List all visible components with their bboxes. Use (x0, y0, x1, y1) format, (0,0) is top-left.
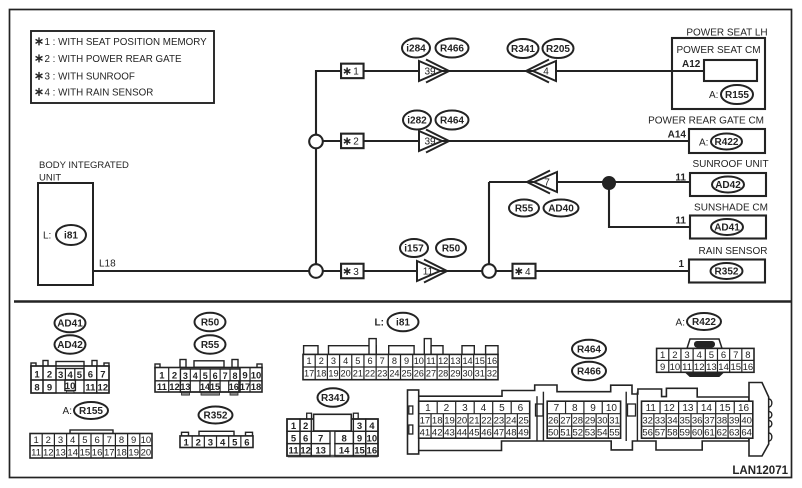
svg-text:6: 6 (367, 356, 372, 366)
svg-text:POWER SEAT LH: POWER SEAT LH (686, 28, 767, 39)
svg-text:57: 57 (655, 428, 666, 439)
svg-text:A:: A: (709, 90, 718, 101)
svg-text:50: 50 (548, 428, 559, 439)
svg-text:AD40: AD40 (548, 204, 574, 215)
svg-text:16: 16 (229, 382, 239, 392)
svg-text:22: 22 (481, 415, 492, 426)
svg-text:8: 8 (34, 383, 39, 394)
svg-text:4: 4 (343, 356, 348, 366)
svg-text:41: 41 (420, 428, 431, 439)
svg-text:9: 9 (660, 362, 665, 373)
svg-text:10: 10 (414, 356, 424, 366)
svg-text:2: 2 (46, 435, 51, 446)
svg-text:8: 8 (745, 350, 750, 361)
svg-text:9: 9 (242, 371, 247, 382)
svg-text:49: 49 (518, 428, 529, 439)
svg-text:14: 14 (462, 356, 472, 366)
svg-text:30: 30 (597, 415, 608, 426)
svg-text:A:: A: (63, 406, 72, 417)
svg-text:29: 29 (585, 415, 596, 426)
svg-text:44: 44 (457, 428, 468, 439)
svg-text:AD41: AD41 (714, 223, 740, 234)
svg-text:AD42: AD42 (57, 340, 83, 351)
svg-text:9: 9 (47, 383, 52, 394)
svg-text:3: 3 (58, 435, 63, 446)
svg-text:61: 61 (704, 428, 715, 439)
svg-text:12: 12 (98, 383, 109, 394)
svg-text:11: 11 (675, 216, 686, 227)
svg-text:AD41: AD41 (57, 319, 83, 330)
svg-text:18: 18 (116, 447, 127, 458)
svg-text:2: 2 (444, 403, 450, 414)
svg-text:4: 4 (525, 267, 531, 278)
svg-text:30: 30 (462, 369, 472, 379)
svg-text:4: 4 (369, 421, 375, 432)
svg-text:1: 1 (183, 437, 189, 448)
svg-text:5: 5 (709, 350, 714, 361)
svg-text:64: 64 (741, 428, 752, 439)
svg-text:38: 38 (717, 415, 728, 426)
svg-text:43: 43 (444, 428, 455, 439)
svg-text:16: 16 (92, 447, 103, 458)
svg-text:47: 47 (494, 428, 505, 439)
svg-text:19: 19 (328, 369, 338, 379)
svg-text:9: 9 (590, 403, 596, 414)
svg-text:POWER SEAT CM: POWER SEAT CM (676, 45, 760, 56)
svg-text:13: 13 (315, 446, 326, 457)
svg-text:24: 24 (506, 415, 517, 426)
svg-text:R205: R205 (546, 44, 570, 55)
svg-text:37: 37 (704, 415, 715, 426)
svg-text:15: 15 (719, 403, 731, 414)
svg-text:i81: i81 (396, 318, 410, 329)
svg-text:12: 12 (43, 447, 54, 458)
svg-text:1: 1 (33, 435, 38, 446)
svg-text:13: 13 (450, 356, 460, 366)
svg-text:6: 6 (88, 370, 93, 381)
svg-text:7: 7 (733, 350, 738, 361)
svg-text:6: 6 (721, 350, 726, 361)
svg-text:11: 11 (31, 447, 41, 458)
svg-text:20: 20 (457, 415, 468, 426)
svg-text:51: 51 (560, 428, 571, 439)
svg-text:56: 56 (642, 428, 653, 439)
svg-text:2: 2 (196, 437, 201, 448)
svg-text:3: 3 (462, 403, 468, 414)
svg-text:52: 52 (572, 428, 583, 439)
svg-text:53: 53 (585, 428, 596, 439)
svg-text:5: 5 (499, 403, 505, 414)
svg-text:10: 10 (670, 362, 681, 373)
svg-text:45: 45 (469, 428, 480, 439)
svg-text:R50: R50 (442, 244, 461, 255)
svg-text:6: 6 (518, 403, 524, 414)
svg-text:8: 8 (572, 403, 578, 414)
svg-text:11: 11 (85, 383, 96, 394)
svg-text:R352: R352 (715, 267, 739, 278)
svg-text:7: 7 (318, 433, 323, 444)
svg-text:R155: R155 (725, 90, 749, 101)
svg-text:i81: i81 (64, 231, 78, 242)
svg-text:11: 11 (646, 403, 657, 414)
svg-text:11: 11 (675, 173, 686, 184)
svg-text:36: 36 (692, 415, 703, 426)
svg-text:8: 8 (233, 371, 238, 381)
svg-text:R466: R466 (440, 44, 464, 55)
svg-text:63: 63 (729, 428, 740, 439)
svg-text:7: 7 (100, 370, 105, 381)
svg-text:24: 24 (389, 369, 399, 379)
svg-text:11: 11 (423, 267, 434, 278)
svg-text:A12: A12 (682, 59, 701, 70)
svg-text:31: 31 (609, 415, 620, 426)
svg-text:18: 18 (316, 369, 326, 379)
svg-text:6: 6 (213, 371, 218, 381)
svg-text:2: 2 (319, 356, 324, 366)
svg-text:R464: R464 (577, 345, 601, 356)
svg-text:2: 2 (172, 371, 177, 382)
svg-text:R55: R55 (515, 204, 534, 215)
svg-text:1: 1 (159, 371, 165, 382)
svg-text:11: 11 (682, 362, 692, 373)
svg-text:20: 20 (141, 447, 152, 458)
svg-text:13: 13 (682, 403, 694, 414)
svg-text:5: 5 (82, 435, 87, 446)
svg-text:58: 58 (667, 428, 678, 439)
svg-text:25: 25 (518, 415, 529, 426)
svg-text:17: 17 (104, 447, 115, 458)
svg-text:46: 46 (481, 428, 492, 439)
svg-text:1: 1 (660, 350, 665, 361)
svg-text:15: 15 (730, 362, 741, 373)
svg-text:7: 7 (107, 435, 112, 446)
svg-text:14: 14 (718, 362, 729, 373)
svg-text:5: 5 (77, 370, 83, 381)
svg-text:39: 39 (424, 67, 436, 78)
svg-text:8: 8 (342, 433, 347, 444)
svg-text:L18: L18 (99, 259, 116, 270)
svg-text:21: 21 (469, 415, 480, 426)
svg-text:8: 8 (392, 356, 397, 366)
svg-text:7: 7 (554, 403, 560, 414)
svg-text:R464: R464 (440, 116, 464, 127)
svg-text:19: 19 (444, 415, 455, 426)
svg-text:1: 1 (307, 356, 312, 366)
svg-text:2: 2 (303, 421, 308, 432)
svg-text:10: 10 (606, 403, 618, 414)
svg-text:60: 60 (692, 428, 703, 439)
svg-text:7: 7 (544, 178, 550, 189)
svg-text:29: 29 (450, 369, 460, 379)
svg-text:13: 13 (706, 362, 717, 373)
svg-text:35: 35 (679, 415, 690, 426)
svg-text:13: 13 (55, 447, 66, 458)
svg-text:14: 14 (701, 403, 713, 414)
svg-text:32: 32 (642, 415, 653, 426)
svg-text:27: 27 (426, 369, 436, 379)
svg-text:48: 48 (506, 428, 517, 439)
svg-text:9: 9 (131, 435, 136, 446)
svg-text:L:: L: (43, 231, 51, 242)
svg-text:L:: L: (375, 318, 384, 329)
svg-text:6: 6 (244, 437, 249, 448)
svg-text:42: 42 (432, 428, 443, 439)
svg-text:3: 3 (58, 370, 63, 381)
svg-text:20: 20 (341, 369, 351, 379)
svg-text:5: 5 (291, 433, 297, 444)
svg-text:31: 31 (475, 369, 485, 379)
svg-text:9: 9 (357, 433, 362, 444)
svg-text:R55: R55 (201, 340, 220, 351)
svg-text:A:: A: (699, 137, 708, 148)
svg-text:4: 4 (193, 371, 198, 381)
svg-text:26: 26 (414, 369, 424, 379)
svg-text:4 : WITH RAIN SENSOR: 4 : WITH RAIN SENSOR (45, 88, 154, 99)
svg-text:1: 1 (34, 370, 40, 381)
svg-text:POWER REAR GATE CM: POWER REAR GATE CM (648, 116, 764, 127)
svg-text:15: 15 (354, 446, 365, 457)
svg-text:23: 23 (377, 369, 387, 379)
svg-text:27: 27 (560, 415, 571, 426)
svg-text:12: 12 (169, 382, 180, 393)
svg-text:R352: R352 (204, 411, 228, 422)
svg-text:i282: i282 (407, 116, 427, 127)
svg-text:7: 7 (223, 371, 228, 381)
svg-text:1: 1 (425, 403, 431, 414)
svg-text:1 : WITH SEAT POSITION MEMORY: 1 : WITH SEAT POSITION MEMORY (45, 37, 208, 48)
svg-text:6: 6 (303, 433, 308, 444)
svg-text:5: 5 (232, 437, 238, 448)
svg-text:5: 5 (203, 371, 208, 381)
svg-text:62: 62 (717, 428, 728, 439)
svg-text:3: 3 (684, 350, 689, 361)
svg-text:25: 25 (402, 369, 412, 379)
svg-text:6: 6 (94, 435, 99, 446)
svg-text:3: 3 (331, 356, 336, 366)
svg-text:5: 5 (355, 356, 360, 366)
svg-text:17: 17 (420, 415, 431, 426)
svg-text:23: 23 (494, 415, 505, 426)
svg-text:21: 21 (353, 369, 363, 379)
svg-text:3: 3 (353, 267, 359, 278)
svg-text:15: 15 (210, 382, 220, 392)
svg-text:16: 16 (738, 403, 750, 414)
svg-text:4: 4 (481, 403, 487, 414)
svg-text:26: 26 (548, 415, 559, 426)
svg-text:12: 12 (300, 446, 311, 457)
svg-text:4: 4 (70, 435, 75, 446)
svg-text:14: 14 (200, 382, 210, 392)
svg-text:10: 10 (367, 433, 378, 444)
svg-text:AD42: AD42 (715, 180, 741, 191)
svg-text:LAN12071: LAN12071 (732, 465, 788, 477)
svg-text:2: 2 (47, 370, 52, 381)
svg-text:16: 16 (487, 356, 497, 366)
svg-text:28: 28 (438, 369, 448, 379)
svg-text:13: 13 (180, 382, 190, 392)
svg-text:39: 39 (424, 137, 436, 148)
svg-text:1: 1 (678, 259, 684, 270)
svg-text:R341: R341 (321, 393, 345, 404)
svg-text:1: 1 (291, 421, 297, 432)
svg-text:2: 2 (672, 350, 677, 361)
svg-text:11: 11 (426, 356, 436, 366)
svg-text:54: 54 (597, 428, 608, 439)
svg-text:18: 18 (432, 415, 443, 426)
svg-text:R50: R50 (201, 318, 220, 329)
svg-text:12: 12 (438, 356, 448, 366)
svg-text:18: 18 (251, 382, 262, 393)
svg-text:7: 7 (380, 356, 385, 366)
svg-text:19: 19 (128, 447, 139, 458)
svg-text:UNIT: UNIT (39, 172, 61, 183)
svg-text:R466: R466 (577, 367, 601, 378)
svg-text:2: 2 (353, 137, 359, 148)
svg-text:R341: R341 (511, 44, 535, 55)
svg-text:14: 14 (67, 447, 78, 458)
svg-text:40: 40 (741, 415, 752, 426)
svg-text:3: 3 (208, 437, 213, 448)
svg-text:39: 39 (729, 415, 740, 426)
svg-text:A:: A: (676, 318, 685, 329)
svg-text:34: 34 (667, 415, 678, 426)
svg-text:12: 12 (694, 362, 705, 373)
svg-text:4: 4 (697, 350, 702, 361)
svg-text:59: 59 (679, 428, 690, 439)
svg-text:10: 10 (251, 371, 262, 382)
svg-text:15: 15 (475, 356, 485, 366)
svg-text:10: 10 (141, 435, 152, 446)
svg-text:SUNSHADE CM: SUNSHADE CM (694, 203, 768, 214)
svg-text:12: 12 (664, 403, 676, 414)
svg-text:9: 9 (404, 356, 409, 366)
svg-text:17: 17 (304, 369, 314, 379)
svg-text:55: 55 (609, 428, 620, 439)
svg-text:16: 16 (367, 446, 378, 457)
svg-text:32: 32 (487, 369, 497, 379)
svg-text:3 : WITH SUNROOF: 3 : WITH SUNROOF (45, 72, 135, 83)
svg-text:3: 3 (357, 421, 362, 432)
svg-text:4: 4 (220, 437, 226, 448)
svg-text:4: 4 (543, 67, 549, 78)
svg-text:17: 17 (240, 382, 251, 393)
svg-text:1: 1 (353, 67, 359, 78)
svg-text:3: 3 (183, 371, 188, 381)
svg-text:SUNROOF UNIT: SUNROOF UNIT (692, 159, 768, 170)
svg-text:28: 28 (572, 415, 583, 426)
svg-text:R155: R155 (79, 406, 103, 417)
svg-text:A14: A14 (668, 130, 687, 141)
svg-text:i157: i157 (404, 244, 424, 255)
svg-text:8: 8 (119, 435, 124, 446)
svg-text:33: 33 (655, 415, 666, 426)
svg-text:i284: i284 (406, 44, 426, 55)
svg-text:11: 11 (288, 446, 299, 457)
svg-text:22: 22 (365, 369, 375, 379)
svg-text:14: 14 (339, 446, 350, 457)
svg-text:16: 16 (743, 362, 754, 373)
svg-text:BODY INTEGRATED: BODY INTEGRATED (39, 160, 129, 171)
svg-text:RAIN SENSOR: RAIN SENSOR (699, 246, 768, 257)
svg-text:11: 11 (157, 382, 168, 393)
svg-text:R422: R422 (715, 137, 739, 148)
svg-text:R422: R422 (692, 317, 716, 328)
svg-text:2 : WITH POWER REAR GATE: 2 : WITH POWER REAR GATE (45, 54, 182, 65)
svg-text:15: 15 (80, 447, 91, 458)
